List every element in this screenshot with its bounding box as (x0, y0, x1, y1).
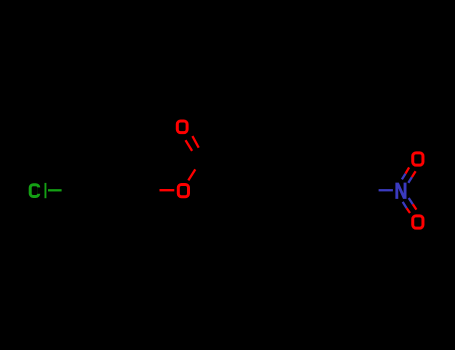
svg-text:N: N (395, 180, 408, 204)
